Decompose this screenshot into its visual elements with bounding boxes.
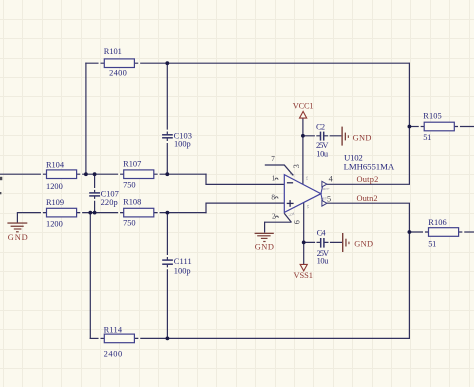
junction at R105 and right vertical [408, 125, 412, 129]
junction at R106 and right vertical [408, 230, 412, 234]
wire GND drop at R109 [16, 212, 18, 223]
wire R101 right to right corner [134, 62, 409, 64]
junction at C107 top and row1 [93, 172, 97, 176]
wire row2 R108 to jog corner [153, 212, 206, 214]
pin-to-wire gap ticks [42, 62, 463, 339]
svg-text:100p: 100p [174, 140, 191, 149]
svg-text:1200: 1200 [46, 182, 63, 191]
capacitor C2 labels [316, 122, 329, 158]
wire Outn2 output run [327, 202, 410, 204]
wire row1 R107 to jog corner [153, 173, 206, 175]
svg-text:7: 7 [271, 155, 275, 163]
wire Outp2 output run [327, 183, 410, 185]
svg-text:Outn2: Outn2 [357, 194, 378, 203]
svg-text:C107: C107 [101, 189, 119, 198]
wire C111 lower branch [166, 265, 168, 339]
svg-text:GND: GND [354, 240, 373, 249]
ground symbol at op-amp pin2 [255, 233, 274, 242]
svg-text:GND: GND [255, 242, 274, 251]
wire pin2 horizontal [265, 221, 292, 223]
clipped net label fragment lower left edge [0, 192, 1, 194]
resistor R109 [46, 198, 77, 229]
wire jog up to op-amp pin8 [206, 203, 284, 213]
svg-text:VSS1: VSS1 [294, 271, 313, 280]
svg-text:2400: 2400 [109, 69, 127, 78]
op-amp U102 triangle body [284, 175, 321, 213]
svg-text:C2: C2 [316, 122, 325, 131]
svg-text:OUT-: OUT- [321, 197, 328, 201]
svg-text:R114: R114 [104, 325, 123, 334]
op-amp plus sign pin8 [287, 200, 294, 207]
svg-text:5: 5 [327, 195, 331, 204]
wire VCC pin3 vertical [302, 118, 304, 184]
op-amp apex stub to pin5 [321, 194, 323, 202]
resistor R104 [46, 160, 77, 191]
op-amp apex stub to pin4 [321, 186, 323, 194]
wire R106 left stub [409, 231, 428, 233]
junction at C4 and pin6 line [302, 241, 306, 245]
op-amp minus sign pin1 [287, 182, 293, 184]
capacitor C111 plates [162, 260, 173, 264]
svg-text:8: 8 [271, 193, 275, 201]
capacitor C111 labels [174, 257, 192, 275]
junction at C103 top and R101 output run [165, 61, 169, 65]
capacitor C107 labels [101, 189, 119, 207]
op-amp output arrow pin4 [322, 181, 327, 187]
wire pin7 horizontal [265, 164, 285, 166]
wire R106 right to edge [459, 231, 474, 233]
wire R114 left stub [90, 337, 105, 339]
wire row1 R104 to R107 [77, 173, 124, 175]
svg-text:C111: C111 [174, 257, 192, 266]
wire input row1 from left edge to R104 [0, 173, 47, 175]
svg-text:R107: R107 [123, 159, 141, 168]
svg-text:R109: R109 [46, 198, 64, 207]
capacitor C107 plates [89, 193, 100, 196]
svg-text:Outp2: Outp2 [357, 175, 379, 184]
wire C2 right to GND [324, 135, 341, 137]
svg-text:VCC1: VCC1 [293, 101, 314, 110]
junction at C111 top and row2 [166, 211, 170, 215]
svg-text:2400: 2400 [104, 350, 123, 359]
svg-text:4: 4 [329, 174, 333, 183]
junction at C103 bottom and row1 [165, 172, 169, 176]
svg-text:R106: R106 [428, 218, 446, 227]
svg-text:GND: GND [353, 133, 372, 142]
wire row2 R109 to R108 [77, 212, 124, 214]
wire R114 right run to right side [135, 337, 411, 339]
svg-text:10u: 10u [317, 257, 330, 266]
wire right feedback vertical upper [408, 63, 410, 185]
capacitor C103 plates [162, 135, 173, 138]
capacitor C4 plates [321, 238, 324, 248]
resistor R108 [123, 197, 154, 227]
wire C103 upper branch [166, 63, 168, 134]
svg-text:3: 3 [292, 164, 301, 168]
svg-text:VS: VS [305, 176, 309, 180]
svg-text:GND: GND [8, 233, 28, 242]
svg-text:750: 750 [123, 180, 135, 189]
ground symbol at R109 [7, 222, 27, 232]
capacitor C2 plates [321, 132, 324, 141]
clipped net label fragment upper left edge [0, 177, 2, 180]
wire R114 left vertical [89, 213, 91, 339]
svg-text:R105: R105 [423, 111, 441, 120]
wire R105 left stub [409, 126, 424, 128]
wire jog down to op-amp pin1 [206, 174, 284, 185]
wire pin2 GND drop [264, 222, 266, 233]
wire feedback left vertical R101 [85, 63, 87, 175]
svg-text:VS: VS [306, 204, 310, 208]
wire VSS pin6 vertical [303, 202, 305, 264]
ground symbol at C2 [341, 127, 349, 146]
pin2 name arc [275, 216, 278, 218]
resistor R114 [104, 325, 135, 358]
svg-text:LMH6551MA: LMH6551MA [344, 162, 395, 172]
svg-text:R101: R101 [104, 47, 122, 56]
capacitor C4 labels [317, 229, 330, 266]
wire R109 left to GND drop [17, 212, 46, 214]
svg-text:R108: R108 [123, 197, 141, 206]
svg-text:750: 750 [123, 218, 135, 227]
svg-text:6: 6 [293, 220, 302, 224]
svg-text:51: 51 [423, 133, 431, 142]
svg-text:C4: C4 [317, 229, 327, 238]
junction at C107 bottom and row2 [93, 211, 97, 215]
ground symbol at C4 [342, 233, 350, 252]
wire pin2 diagonal to op-amp corner [284, 213, 291, 222]
wire right feedback vertical lower [408, 203, 410, 339]
svg-text:220p: 220p [101, 198, 118, 207]
wire C103 lower branch [166, 138, 168, 174]
wire C4 left [304, 241, 321, 243]
junction at R101 left vertical and row1 [84, 172, 88, 176]
junction at C2 and pin3 line [301, 134, 305, 138]
wire C107 lower branch [94, 196, 96, 212]
wire R105 right to edge [454, 126, 474, 128]
pin1 name arc [275, 178, 278, 180]
resistor R105 [423, 111, 454, 141]
svg-text:OUT+: OUT+ [322, 187, 330, 191]
svg-text:100p: 100p [174, 266, 191, 275]
svg-text:10u: 10u [316, 150, 329, 159]
junction at C111 bottom and R114 run [166, 337, 170, 341]
wire C111 upper branch [166, 213, 168, 260]
wire R101 left stub [85, 62, 104, 64]
power port VCC1 arrow [300, 111, 307, 118]
svg-text:51: 51 [428, 240, 436, 249]
wire pin7 diagonal into op-amp [284, 165, 293, 176]
svg-text:1200: 1200 [46, 220, 63, 229]
wire C2 left [303, 135, 320, 137]
resistor R107 [123, 159, 154, 189]
power port VSS1 arrow [300, 264, 307, 271]
junction at R114 vertical and row2 [88, 211, 92, 215]
op-amp output arrow pin5 [322, 201, 327, 207]
wire C4 right to GND [324, 241, 342, 243]
pin8 name arc [275, 197, 278, 199]
capacitor C103 labels [174, 131, 192, 148]
resistor R106 [428, 218, 458, 249]
svg-text:R104: R104 [46, 160, 65, 169]
wire C107 upper branch [94, 174, 96, 192]
resistor R101 [104, 47, 135, 77]
